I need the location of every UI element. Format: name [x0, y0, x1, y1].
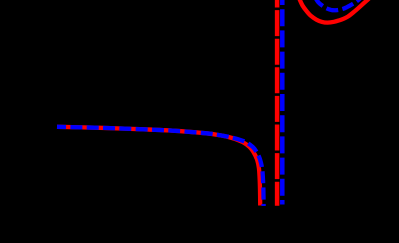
red solid curve, left branch	[57, 127, 260, 206]
blue dashed vertical asymptote line	[280, 0, 285, 205]
red solid curve, right branch	[299, 0, 370, 23]
blue dashed curve, left branch (overlapping red)	[57, 127, 264, 206]
blue dashed curve, right branch	[316, 0, 361, 10]
red dashed vertical asymptote line	[275, 0, 280, 206]
